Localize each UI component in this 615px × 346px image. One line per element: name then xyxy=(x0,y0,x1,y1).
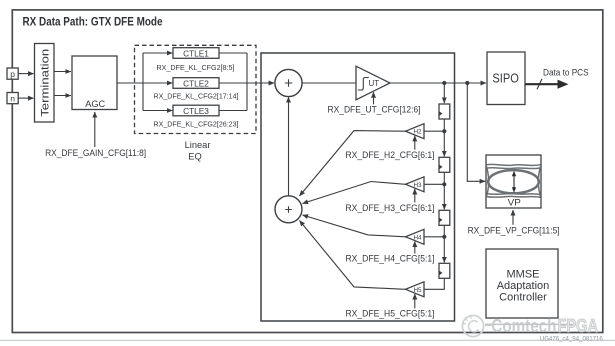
wire VP config arrow xyxy=(512,210,514,225)
wire FF4 to H5 amp xyxy=(424,278,444,289)
Linear EQ dashed enclosure xyxy=(135,45,257,133)
svg-text:AGC: AGC xyxy=(85,99,105,109)
wire EQ output to summer xyxy=(247,82,274,84)
svg-text:UG476_c4_94_081716: UG476_c4_94_081716 xyxy=(540,335,603,342)
wire P to Termination xyxy=(18,73,33,75)
wire H4 to summer S2 xyxy=(303,215,406,237)
svg-text:RX_DFE_KL_CFG2[26:23]: RX_DFE_KL_CFG2[26:23] xyxy=(154,119,239,128)
label Linear EQ xyxy=(185,140,211,161)
tap amp H4 xyxy=(406,229,425,244)
svg-text:RX_DFE_H2_CFG[6:1]: RX_DFE_H2_CFG[6:1] xyxy=(346,150,435,160)
wire H3 config arrow xyxy=(414,189,416,203)
eye monitor VP xyxy=(486,155,541,208)
svg-text:Adaptation: Adaptation xyxy=(497,280,550,292)
Termination block xyxy=(35,44,55,123)
node junction at tap chain xyxy=(442,81,446,85)
svg-text:SIPO: SIPO xyxy=(492,71,519,86)
wire gain config to AGC xyxy=(94,112,96,147)
svg-text:n: n xyxy=(10,93,15,103)
svg-text:VP: VP xyxy=(508,197,521,207)
wire EQ input branch xyxy=(143,53,172,111)
wire FF3 to FF4 xyxy=(443,225,445,262)
watermark logo xyxy=(462,315,484,337)
wire H5 config arrow xyxy=(414,294,416,308)
svg-text:CTLE1: CTLE1 xyxy=(183,48,209,58)
MMSE adaptation controller block xyxy=(486,249,558,318)
flip-flop FF2 xyxy=(439,157,450,172)
wire FF1 to FF2 xyxy=(443,119,445,156)
wire CTLE outputs merge xyxy=(219,53,247,111)
node junction H4 xyxy=(442,235,446,239)
svg-text:RX_DFE_H5_CFG[5:1]: RX_DFE_H5_CFG[5:1] xyxy=(346,309,435,319)
svg-text:FPGA: FPGA xyxy=(558,315,599,336)
input pad P xyxy=(7,68,18,79)
flip-flop FF1 xyxy=(439,104,450,119)
svg-text:Comtech: Comtech xyxy=(491,315,556,336)
wire UT config arrow xyxy=(373,92,375,104)
svg-text:Data to PCS: Data to PCS xyxy=(543,68,589,78)
page separator rule xyxy=(0,339,615,341)
svg-text:UT: UT xyxy=(368,79,379,88)
svg-text:H5: H5 xyxy=(413,287,422,294)
input pad N xyxy=(7,93,18,104)
svg-text:RX_DFE_H4_CFG[5:1]: RX_DFE_H4_CFG[5:1] xyxy=(346,253,435,263)
wire summer S2 to summer S1 xyxy=(288,97,290,196)
svg-text:H2: H2 xyxy=(413,129,422,136)
svg-text:p: p xyxy=(10,69,15,79)
wire to H4 amp xyxy=(424,236,444,238)
tap amp H2 xyxy=(406,124,425,139)
slicer UT xyxy=(356,66,390,100)
svg-text:RX_DFE_VP_CFG[11:5]: RX_DFE_VP_CFG[11:5] xyxy=(468,226,560,236)
wire H2 to summer S2 xyxy=(300,131,406,196)
flip-flop FF4 xyxy=(439,263,450,278)
wire summer S1 to UT slicer xyxy=(302,82,356,84)
svg-text:CTLE2: CTLE2 xyxy=(183,78,209,88)
svg-text:EQ: EQ xyxy=(188,151,201,161)
wire H4 config arrow xyxy=(414,241,416,253)
svg-text:Linear: Linear xyxy=(185,140,211,150)
wire to eye monitor VP xyxy=(467,83,485,181)
wire H5 to summer S2 xyxy=(300,221,406,290)
node junction H2 xyxy=(442,129,446,133)
watermark text xyxy=(485,315,598,336)
svg-text:CTLE3: CTLE3 xyxy=(183,106,209,116)
svg-text:RX_DFE_UT_CFG[12:6]: RX_DFE_UT_CFG[12:6] xyxy=(328,105,421,115)
wire to H2 amp xyxy=(424,130,444,132)
svg-text:RX_DFE_GAIN_CFG[11:8]: RX_DFE_GAIN_CFG[11:8] xyxy=(45,148,146,158)
wire FF2 to FF3 xyxy=(443,172,445,209)
svg-text:RX_DFE_KL_CFG2[17:14]: RX_DFE_KL_CFG2[17:14] xyxy=(154,92,239,101)
wire Data to PCS xyxy=(525,79,569,90)
summer S2 (lower) xyxy=(275,196,302,223)
svg-text:MMSE: MMSE xyxy=(507,269,540,281)
svg-text:RX Data Path: GTX DFE Mode: RX Data Path: GTX DFE Mode xyxy=(23,15,163,29)
flip-flop FF3 xyxy=(439,210,450,225)
svg-text:H4: H4 xyxy=(413,234,422,241)
svg-text:Controller: Controller xyxy=(499,292,547,304)
node junction at VP branch xyxy=(465,81,469,85)
summer S1 (upper) xyxy=(275,69,302,96)
wire to H3 amp xyxy=(424,183,444,185)
wire H3 to summer S2 xyxy=(303,182,406,204)
tap amp H3 xyxy=(406,177,425,192)
wire Termination to AGC (lower) xyxy=(54,95,71,97)
CTLE1 block xyxy=(173,48,219,59)
tap amp H5 xyxy=(406,282,425,297)
svg-text:RX_DFE_KL_CFG2[8:5]: RX_DFE_KL_CFG2[8:5] xyxy=(157,63,235,72)
CTLE2 block xyxy=(173,78,219,89)
AGC block xyxy=(72,56,117,110)
wire to FF1 xyxy=(443,83,445,103)
wire AGC to linear EQ xyxy=(117,82,173,84)
wire UT output to SIPO xyxy=(390,82,486,84)
DFE enclosure box xyxy=(261,53,455,321)
wire Termination to AGC (upper) xyxy=(54,71,71,73)
wire H2 config arrow xyxy=(414,136,416,150)
CTLE3 block xyxy=(173,105,219,116)
node junction H3 xyxy=(442,182,446,186)
SIPO block xyxy=(487,52,525,105)
svg-text:RX_DFE_H3_CFG[6:1]: RX_DFE_H3_CFG[6:1] xyxy=(346,203,435,213)
wire N to Termination xyxy=(18,97,33,99)
svg-text:Termination: Termination xyxy=(39,49,51,117)
svg-text:H3: H3 xyxy=(413,182,422,189)
